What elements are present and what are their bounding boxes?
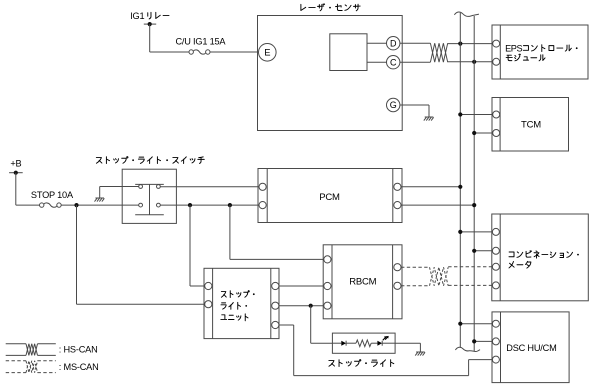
label MS-CAN	[59, 362, 99, 372]
label ストップ・ライト	[329, 360, 394, 367]
svg-text:PCM: PCM	[319, 192, 340, 203]
lamp stop light box	[332, 333, 395, 353]
label HS-CAN	[59, 345, 98, 355]
DSC pin 3	[492, 356, 499, 363]
stop light unit pin D	[272, 302, 279, 309]
wire pin C to twist	[400, 61, 431, 63]
label コンビネーション・メータ	[509, 251, 579, 268]
module TCM box	[492, 98, 569, 152]
PCM pin right 2	[394, 202, 401, 209]
wire bus H to TCM pin 1	[458, 112, 492, 116]
junction +B branch	[74, 203, 78, 207]
PCM pin right 1	[394, 183, 401, 190]
pin G	[387, 98, 400, 111]
pin D	[387, 37, 400, 50]
stop light unit pin C	[272, 282, 279, 289]
svg-text:TCM: TCM	[521, 119, 541, 130]
switch contact bar bottom	[135, 214, 164, 216]
ground stop light	[415, 352, 425, 356]
module EPS control box	[492, 25, 588, 79]
RBCM pin left 1	[324, 256, 331, 263]
label TCM	[521, 119, 541, 130]
wire unit pin D to RBCM pin 3	[279, 305, 324, 307]
svg-text:STOP 10A: STOP 10A	[31, 190, 74, 200]
wire MS-CAN high RBCM to twist (dashed)	[401, 266, 430, 268]
bus HS-CAN L line	[473, 16, 475, 351]
combination meter pin 3	[492, 263, 499, 270]
svg-text:IG1: IG1	[130, 11, 144, 21]
RBCM pin right 1	[394, 264, 401, 271]
node +B battery feed	[9, 171, 23, 175]
wire switch to PCM pin 1	[160, 186, 259, 188]
wire bus L to combination meter pin 2	[472, 249, 492, 253]
stop light unit pin B	[205, 301, 212, 308]
bus continuation break top	[454, 12, 479, 16]
EPS pin 2	[493, 58, 500, 65]
RBCM pin left 2	[324, 282, 331, 289]
wire internal block to pin D	[367, 42, 387, 44]
DSC pin 2	[492, 338, 499, 345]
switch contact bar top	[135, 183, 164, 185]
wire twist to bus H (EPS pin 1)	[448, 42, 493, 46]
wire internal block to pin C	[367, 61, 387, 63]
wire bus H to DSC pin 1	[458, 322, 492, 326]
module DSC HU/CM box	[492, 312, 569, 383]
combination meter pin 1	[492, 228, 499, 235]
wire fuse to stop light switch	[61, 204, 139, 206]
module RBCM box	[323, 245, 402, 319]
switch contact bottom-right	[157, 203, 161, 207]
PCM pin left 1	[259, 183, 266, 190]
bus continuation break bottom	[455, 347, 480, 351]
switch stop light switch box	[122, 169, 176, 223]
svg-text:+B: +B	[10, 158, 21, 168]
label ストップ・ライト・スイッチ	[96, 157, 204, 164]
svg-text:RBCM: RBCM	[349, 277, 376, 288]
switch contact bottom-left	[139, 203, 143, 207]
diode D1	[332, 341, 346, 346]
ground stop light switch	[95, 198, 105, 202]
wire switch to ground	[100, 187, 139, 198]
wire pin D to twist	[400, 42, 431, 44]
wire bus H to combination meter pin 1	[458, 230, 492, 234]
svg-text:: MS-CAN: : MS-CAN	[59, 362, 99, 372]
svg-text:E: E	[264, 47, 270, 58]
EPS pin 1	[493, 40, 500, 47]
module PCM box	[258, 169, 402, 223]
bus HS-CAN H line	[459, 13, 461, 348]
RBCM pin left 3	[324, 302, 331, 309]
switch contact top-right	[157, 185, 161, 189]
PCM pin left 2	[259, 202, 266, 209]
wire fuse to laser sensor pin E	[210, 51, 259, 53]
label PCM	[319, 192, 340, 203]
wire +B to fuse STOP	[16, 173, 40, 205]
wire MS-CAN low to combination meter pin 4 (dashed)	[448, 284, 492, 286]
legend MS-CAN symbol	[6, 361, 56, 373]
svg-text:EPS: EPS	[505, 43, 522, 53]
junction stop light branch	[309, 304, 313, 308]
wire bus L to TCM pin 2	[472, 131, 493, 135]
wire branch to RBCM pin 1	[230, 205, 324, 259]
wire switch to PCM pin 2	[160, 204, 259, 206]
LED D2 stop lamp	[371, 336, 395, 346]
module stop light unit box	[204, 268, 279, 338]
svg-text:DSC HU/CM: DSC HU/CM	[506, 343, 556, 353]
fuse C/U IG1 15A	[175, 37, 226, 55]
wire stop light to ground	[395, 343, 420, 352]
stop light unit pin A	[205, 282, 212, 289]
ground laser sensor	[424, 117, 434, 121]
wire PCM to bus H	[401, 185, 462, 189]
wire bus L to DSC pin 2	[472, 339, 492, 343]
module combination meter box	[492, 214, 589, 301]
combination meter pin 2	[492, 247, 499, 254]
wire IG1 relay to fuse	[150, 24, 190, 52]
laser sensor unit box	[258, 16, 403, 131]
wire MS-CAN high to combination meter pin 3 (dashed)	[448, 266, 492, 268]
wire twist to bus L (EPS pin 2)	[448, 60, 493, 64]
wire unit pin C to RBCM pin 2	[279, 285, 324, 287]
switch contact top-left	[139, 185, 143, 189]
DSC pin 1	[492, 320, 499, 327]
RBCM pin right 2	[394, 282, 401, 289]
junction stop signal branch 1	[188, 203, 192, 207]
svg-text:C/U IG1 15A: C/U IG1 15A	[175, 37, 226, 47]
twisted pair MS-CAN (dashed)	[430, 267, 449, 286]
label RBCM	[349, 277, 376, 288]
fuse STOP 10A	[31, 190, 74, 207]
combination meter pin 4	[492, 282, 499, 289]
resistor R1	[346, 340, 371, 347]
label DSC HU/CM	[506, 343, 556, 353]
wire branch to stop light unit pin A	[190, 205, 205, 286]
twisted pair HS-CAN laser sensor	[430, 43, 447, 62]
label EPSコントロール・モジュール	[505, 43, 577, 60]
label ストップ・ライト・ユニット	[221, 291, 255, 321]
node IG1 relay feed	[144, 22, 156, 26]
TCM pin 1	[493, 111, 500, 118]
svg-text:: HS-CAN: : HS-CAN	[59, 345, 98, 355]
wire pin G to ground	[400, 105, 429, 117]
wire MS-CAN low RBCM to twist (dashed)	[401, 285, 430, 287]
svg-text:C: C	[390, 57, 397, 67]
wire PCM to bus L	[401, 203, 476, 207]
label レーザ・センサ	[301, 4, 360, 11]
pin E	[259, 44, 277, 62]
wire unit pin E to DSC pin 3	[279, 325, 493, 376]
svg-text:G: G	[390, 100, 397, 110]
label IG1リレー	[130, 11, 169, 21]
wire junction to stop light	[311, 306, 333, 344]
pin C	[387, 56, 400, 69]
svg-text:D: D	[390, 38, 397, 48]
wire +B branch to stop light unit pin B	[77, 205, 205, 304]
laser sensor internal block	[330, 34, 367, 71]
junction stop signal branch 2	[228, 203, 232, 207]
legend HS-CAN symbol	[6, 344, 56, 356]
label +B	[10, 158, 21, 168]
stop light unit pin E	[272, 321, 279, 328]
TCM pin 2	[493, 130, 500, 137]
switch actuator stem	[149, 184, 151, 214]
